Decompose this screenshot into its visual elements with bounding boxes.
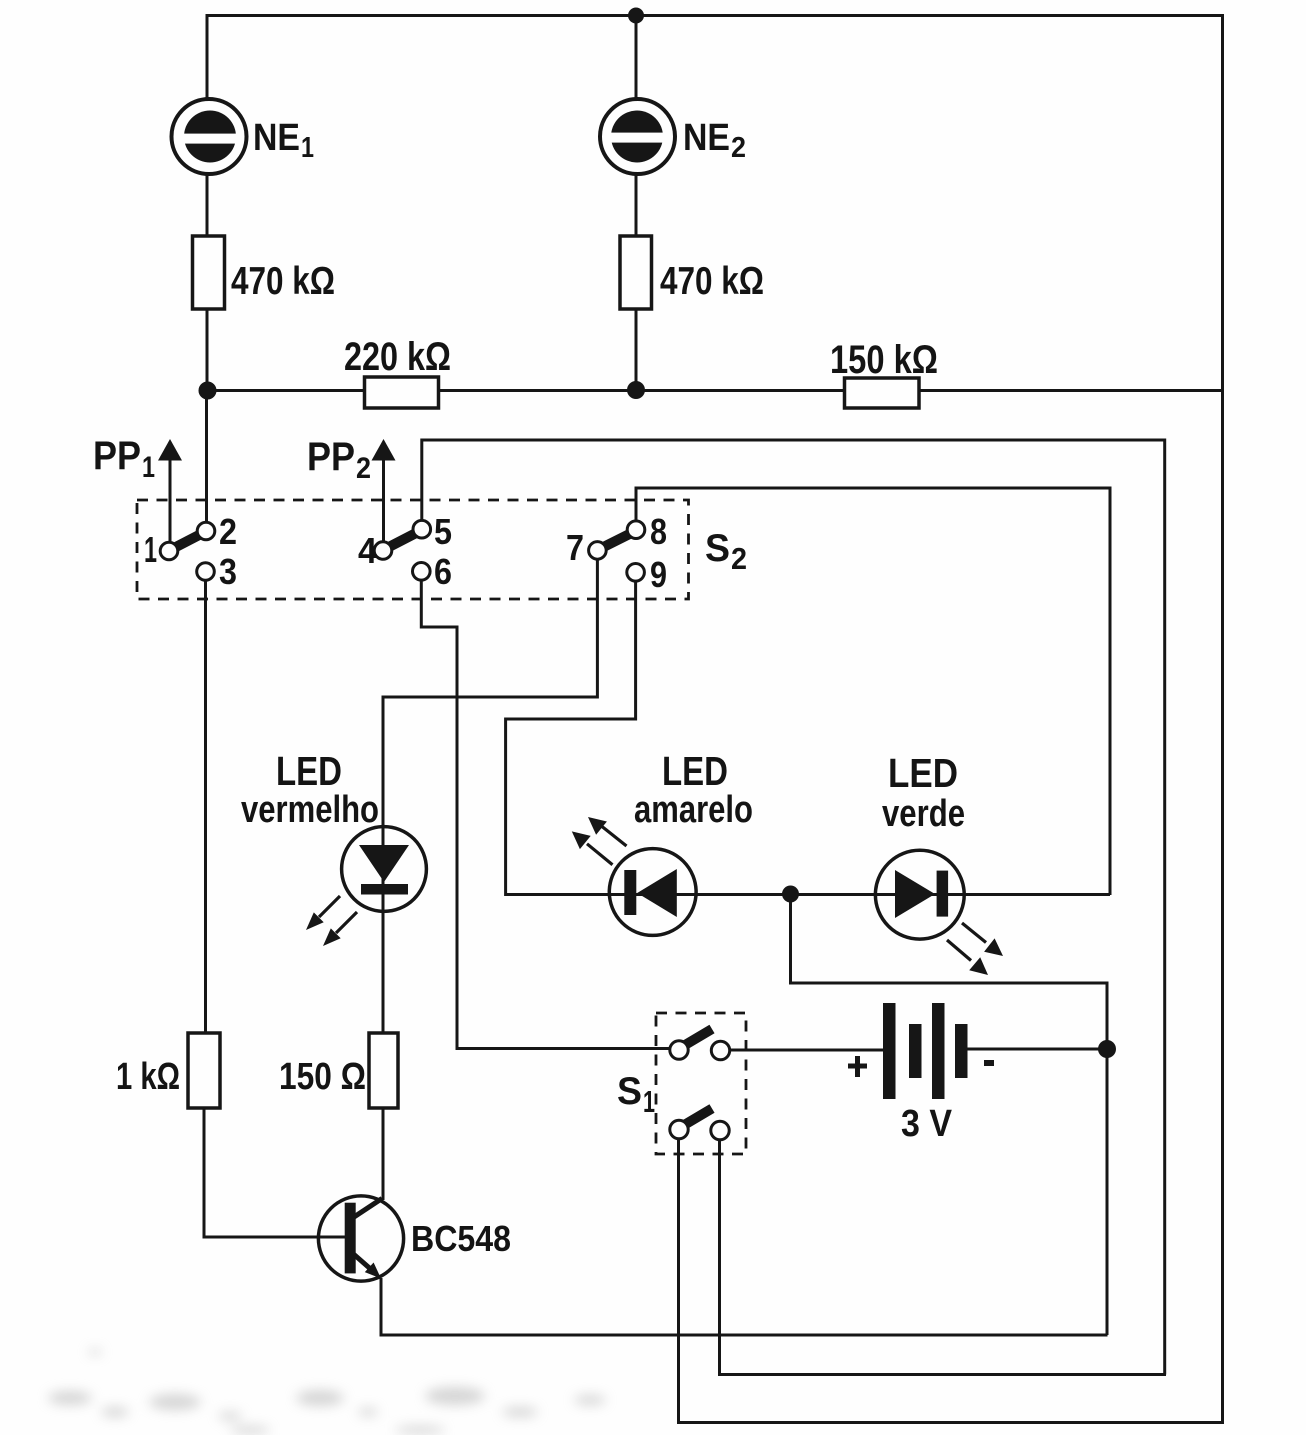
wire PP1 probe stem to S2 pin 1	[169, 458, 172, 542]
svg-text:6: 6	[434, 551, 452, 592]
wire battery minus junction down	[1106, 1047, 1109, 1335]
svg-text:150 Ω: 150 Ω	[279, 1056, 366, 1098]
junction node middle (NE2/150k)	[627, 381, 645, 399]
switch S2 contact 7	[589, 542, 607, 560]
svg-text:5: 5	[434, 511, 452, 552]
svg-text:1 kΩ: 1 kΩ	[116, 1056, 180, 1098]
LED D1 red : circle	[342, 827, 427, 912]
svg-text:NE: NE	[253, 117, 300, 159]
switch S2 contact 5	[413, 520, 431, 538]
wire left junction down to S2 pin 2	[205, 391, 208, 523]
svg-text:470 kΩ: 470 kΩ	[660, 260, 764, 303]
battery B1 short plate 1	[909, 1024, 922, 1078]
wire S2 pin 8 up over and down to green LED cathode	[636, 488, 1110, 895]
svg-text:verde: verde	[882, 793, 965, 835]
wire yellow-green LED junction to green LED and cathode rail	[790, 893, 1110, 896]
battery plus sign	[848, 1056, 867, 1077]
LED D3 green : cathode bar	[937, 871, 949, 917]
wire S2 pin 3 down to 1k resistor	[204, 580, 207, 1033]
LED D2 yellow : cathode bar	[624, 870, 636, 915]
switch S2 contact 1	[160, 542, 178, 560]
battery B1 short plate 2	[955, 1024, 968, 1078]
wire S1 lower left contact down right and up outer return rail	[679, 14, 1223, 1423]
svg-text:LED: LED	[888, 750, 958, 796]
wire NE2 to R2	[635, 174, 638, 237]
svg-text:NE: NE	[683, 117, 730, 159]
LED D1 red : light arrow 1	[306, 896, 340, 930]
wire 150k to right border rail	[919, 389, 1223, 392]
transistor Q1 BC548 : circle	[318, 1196, 403, 1281]
wire red LED cathode to 150 ohm	[382, 911, 385, 1034]
resistor R5 1k	[188, 1033, 220, 1108]
LED D3 green : circle	[875, 850, 964, 939]
transistor Q1 : base bar	[345, 1203, 356, 1274]
wire red LED internal lead	[382, 827, 385, 911]
resistor R1 470k	[193, 236, 225, 309]
wire left junction to 220k resistor	[206, 389, 365, 392]
svg-text:2: 2	[356, 452, 371, 485]
LED D3 green : light arrow 2	[947, 940, 988, 975]
wire battery minus lead	[967, 1048, 1108, 1051]
probe arrow PP2	[372, 439, 396, 461]
wire 150 ohm to transistor collector	[382, 1108, 385, 1200]
svg-text:9: 9	[650, 554, 667, 595]
switch S2 contact 4	[374, 542, 392, 560]
switch S2 lever pole 4-5	[387, 533, 417, 549]
svg-text:3: 3	[219, 551, 237, 592]
wire S2 pin 6 down to S1 upper pole	[421, 580, 670, 1048]
switch S1 upper left contact	[670, 1041, 688, 1059]
switch S2 contact 9	[627, 564, 645, 582]
svg-text:BC548: BC548	[411, 1218, 511, 1259]
wire S2 pin 5 up over and down right-middle rail	[422, 440, 1165, 1375]
LED D2 yellow : circle	[609, 849, 696, 936]
switch S2 contact 3	[197, 563, 215, 581]
svg-text:LED: LED	[662, 748, 728, 794]
LED D1 red : triangle anode	[359, 845, 409, 882]
wire 1k resistor to transistor base	[204, 1108, 346, 1237]
svg-text:1: 1	[144, 529, 157, 570]
wire NE1 top lead	[206, 14, 209, 100]
wire R2 to middle junction	[635, 309, 638, 391]
resistor R4 150k	[845, 378, 920, 408]
junction node yellow/green LED	[782, 886, 799, 903]
switch S2 contact 2	[197, 522, 215, 540]
LED D1 red : cathode bar	[361, 884, 408, 895]
switch S2 contact 6	[413, 563, 431, 581]
switch S2 lever pole 1-2	[173, 534, 202, 549]
wire LED junction down over to battery minus	[791, 894, 1108, 1049]
neon lamp NE2	[600, 99, 675, 174]
wire middle junction to 150k resistor	[636, 389, 845, 392]
svg-text:2: 2	[731, 132, 746, 164]
wire S2 pin 7 to red LED anode	[383, 559, 597, 827]
svg-text:PP: PP	[307, 435, 355, 479]
svg-text:amarelo: amarelo	[634, 789, 753, 831]
svg-text:LED: LED	[276, 748, 342, 794]
svg-text:1: 1	[142, 451, 155, 484]
svg-text:7: 7	[566, 527, 584, 568]
switch S1 dashed enclosure	[656, 1013, 746, 1154]
wire transistor emitter down and right to battery minus rail	[381, 1278, 1108, 1335]
switch S1 lower lever	[685, 1109, 712, 1125]
probe arrow PP1	[158, 439, 182, 461]
switch S1 lower left contact	[670, 1120, 688, 1138]
wire top supply rail	[207, 14, 1223, 17]
battery minus sign	[984, 1060, 994, 1066]
switch S1 upper right contact	[711, 1041, 729, 1059]
junction node left (NE1/220k)	[199, 382, 217, 400]
wire R1 to left junction	[206, 309, 209, 391]
svg-text:1: 1	[301, 132, 314, 164]
svg-text:220 kΩ: 220 kΩ	[344, 335, 451, 379]
transistor Q1 : collector stroke	[354, 1199, 382, 1218]
resistor R6 150 ohm	[369, 1033, 398, 1108]
resistor R3 220k	[365, 377, 439, 408]
wire NE2 top lead	[635, 16, 638, 100]
LED D2 yellow : triangle anode	[637, 869, 677, 917]
svg-text:S: S	[705, 527, 730, 570]
svg-text:4: 4	[358, 530, 377, 571]
battery B1 long plate 2	[932, 1003, 945, 1099]
svg-text:150 kΩ: 150 kΩ	[830, 338, 938, 382]
LED D2 yellow : light arrow 1	[588, 817, 627, 846]
svg-text:2: 2	[219, 511, 237, 552]
switch S1 upper lever	[685, 1029, 712, 1045]
svg-text:470 kΩ: 470 kΩ	[231, 260, 335, 303]
neon lamp NE1	[172, 99, 247, 174]
svg-text:8: 8	[650, 511, 667, 552]
LED D1 red : light arrow 2	[323, 912, 357, 946]
wire S1 lower right contact down to middle return rail	[720, 1140, 1167, 1375]
svg-text:vermelho: vermelho	[241, 789, 379, 831]
switch S2 lever pole 7-8	[602, 533, 632, 548]
svg-text:3 V: 3 V	[901, 1103, 953, 1145]
battery B1 long plate 1	[883, 1003, 896, 1099]
svg-text:1: 1	[643, 1084, 655, 1119]
wire NE1 to R1	[206, 174, 209, 237]
LED D3 green : light arrow 1	[962, 923, 1003, 956]
wire S1 upper pole right to battery plus	[730, 1049, 885, 1052]
junction node battery minus	[1098, 1040, 1116, 1058]
switch S2 contact 8	[627, 521, 645, 539]
LED D2 yellow : light arrow 2	[572, 831, 613, 864]
LED D3 green : triangle anode	[895, 870, 935, 918]
junction node top rail	[628, 8, 644, 24]
wire S2 pin 9 down over and to yellow LED anode	[506, 581, 791, 894]
svg-text:S: S	[617, 1070, 642, 1113]
transistor Q1 : emitter stroke with arrow	[354, 1255, 381, 1279]
wire 220k to middle junction	[439, 389, 638, 392]
resistor R2 470k	[620, 236, 652, 309]
svg-text:2: 2	[731, 541, 747, 576]
wire PP2 probe stem to S2 pin 4	[382, 458, 385, 542]
switch S1 lower right contact	[711, 1121, 729, 1139]
switch S2 dashed enclosure	[137, 500, 689, 599]
svg-text:PP: PP	[93, 434, 141, 478]
